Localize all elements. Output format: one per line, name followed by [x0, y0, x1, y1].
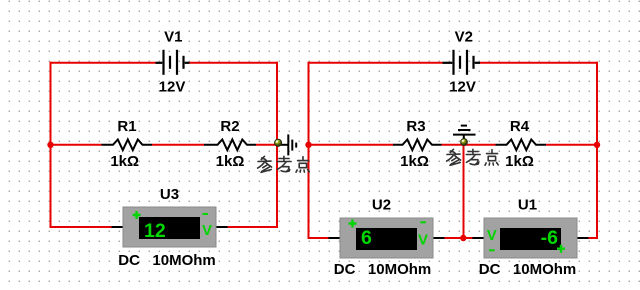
net label 参考点 (left)	[258, 156, 310, 172]
svg-text:U3: U3	[160, 186, 179, 203]
net label 参考点 (right)	[447, 149, 499, 165]
wire: R1 to R2	[152, 144, 204, 146]
svg-text:1kΩ: 1kΩ	[216, 153, 245, 170]
wire: R3 to R4 through ground node	[442, 144, 496, 146]
U3 display	[139, 217, 200, 239]
wire: center junction to U1	[464, 237, 474, 239]
U2 left terminal stub	[329, 237, 341, 239]
svg-text:1kΩ: 1kΩ	[400, 153, 429, 170]
U1 left terminal stub	[473, 237, 485, 239]
wire: U2 to center junction	[444, 237, 464, 239]
svg-text:V1: V1	[164, 28, 182, 45]
wire: right circuit middle, rail to R3	[308, 144, 394, 146]
svg-text:6: 6	[361, 227, 372, 249]
battery V2	[443, 50, 481, 75]
U2 plus mark	[349, 220, 357, 228]
resistor R1	[102, 140, 153, 151]
svg-text:12: 12	[144, 220, 166, 242]
svg-text:R3: R3	[406, 118, 425, 135]
wire: left circuit bottom, rail to U3	[50, 226, 113, 228]
U3 minus mark	[203, 213, 209, 215]
svg-text:V: V	[202, 222, 212, 239]
junction dot: right circuit left rail / middle wire	[305, 142, 311, 148]
svg-text:V: V	[487, 227, 497, 244]
svg-text:U2: U2	[372, 197, 391, 214]
svg-text:1kΩ: 1kΩ	[505, 153, 534, 170]
U2 body	[340, 218, 433, 258]
svg-text:R4: R4	[510, 118, 530, 135]
wire: R4 to right rail	[546, 144, 598, 146]
U2 minus mark	[420, 221, 426, 223]
ground symbol (left circuit, pointing right)	[278, 134, 296, 155]
ground symbol (right circuit, pointing up)	[453, 126, 476, 144]
U2 right terminal stub	[433, 237, 445, 239]
svg-text:V2: V2	[455, 28, 473, 45]
wire: right circuit bottom, rail to U2	[308, 237, 330, 239]
node: left reference junction ball	[275, 139, 282, 146]
U3 right terminal stub	[216, 226, 228, 228]
U2 display	[356, 228, 417, 250]
wire: U1 to right rail	[588, 237, 598, 239]
wire: middle vertical from ground node down	[463, 145, 465, 238]
svg-text:R1: R1	[117, 118, 136, 135]
svg-text:R2: R2	[220, 118, 239, 135]
wire: right circuit right rail	[596, 62, 598, 239]
wire: V1 to top-right corner	[190, 62, 279, 64]
multimeter U2	[329, 218, 445, 258]
junction dot: right circuit right rail / middle wire	[594, 142, 600, 148]
wire: left circuit top-left segment to V1	[50, 62, 156, 64]
resistor R2	[204, 140, 256, 151]
junction dot: left rail / middle wire	[47, 142, 53, 148]
U3 left terminal stub	[112, 226, 124, 228]
resistor R4	[496, 140, 547, 151]
wire: V2 to top-right corner	[480, 62, 598, 64]
svg-text:U1: U1	[518, 197, 537, 214]
wire: left circuit middle, rail to R1	[50, 144, 102, 146]
wire: right circuit top-left segment to V2	[308, 62, 443, 64]
U1 plus mark	[557, 245, 565, 253]
battery V1	[156, 50, 190, 75]
multimeter U1	[473, 218, 589, 258]
wire: U3 to right rail	[227, 226, 278, 228]
U1 display	[500, 228, 561, 250]
multimeter U3	[112, 207, 228, 247]
resistor R3	[393, 140, 442, 151]
svg-text:12V: 12V	[159, 79, 186, 96]
svg-text:DC 10MOhm: DC 10MOhm	[118, 252, 216, 269]
svg-text:DC 10MOhm: DC 10MOhm	[479, 261, 577, 278]
U3 body	[123, 207, 216, 247]
svg-text:V: V	[418, 232, 428, 249]
svg-text:-6: -6	[541, 227, 558, 249]
wire: R2 to ground node	[256, 144, 278, 146]
U1 body	[484, 218, 577, 258]
wire: left circuit right rail	[276, 62, 278, 228]
U3 plus mark	[133, 211, 141, 219]
svg-text:12V: 12V	[449, 79, 476, 96]
wire: right circuit left rail	[308, 62, 310, 239]
wire: left circuit left rail	[50, 62, 52, 228]
U1 right terminal stub	[577, 237, 589, 239]
node: right reference junction ball	[461, 139, 468, 146]
svg-text:DC 10MOhm: DC 10MOhm	[334, 261, 432, 278]
junction dot: bottom center junction	[460, 235, 466, 241]
U1 minus mark	[489, 249, 495, 251]
svg-text:1kΩ: 1kΩ	[110, 153, 139, 170]
